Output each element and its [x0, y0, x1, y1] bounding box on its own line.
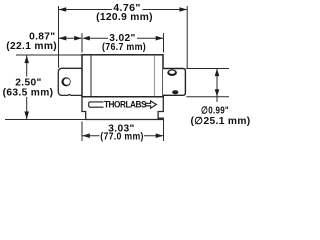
- dim 3.02 line right segment: [137, 37, 164, 39]
- dim 3.02 line left segment: [89, 37, 108, 39]
- Thorlabs logo bracket: [89, 102, 104, 107]
- svg-text:(63.5 mm): (63.5 mm): [3, 88, 54, 99]
- extension line: base left bottom (x=82): [81, 122, 83, 142]
- svg-text:(22.1 mm): (22.1 mm): [6, 41, 57, 52]
- extension line: height top (y=55): [16, 54, 82, 56]
- dim 3.03 line left segment: [82, 135, 99, 137]
- extension line: diameter top (y=68.5): [186, 68, 229, 70]
- body bezel line right: [154, 56, 156, 97]
- dim 3.03 line right segment: [144, 135, 164, 137]
- dim 3.02 arrow right: [156, 36, 164, 41]
- body bezel line left: [90, 56, 92, 97]
- svg-text:(∅25.1 mm): (∅25.1 mm): [191, 116, 250, 127]
- extension line: base right bottom (x=163.5): [163, 120, 165, 141]
- dim dia arrow bottom: [215, 89, 220, 97]
- cylinder (output barrel): [163, 69, 185, 96]
- dim dia arrow top: [215, 69, 220, 77]
- Thorlabs logo arrow: [146, 101, 157, 108]
- extension line: body left top (x=82): [81, 33, 83, 53]
- dim 2.50 vertical line bottom: [26, 97, 28, 119]
- svg-text:THORLABS: THORLABS: [104, 100, 147, 111]
- left block (rear connector housing): [58, 68, 83, 95]
- extension line: body right top (x=163.5): [163, 33, 165, 53]
- hole in left block: [62, 77, 71, 86]
- base plate outline: [82, 97, 163, 120]
- svg-text:(77.0 mm): (77.0 mm): [100, 132, 144, 143]
- dim 0.87 line: [59, 37, 83, 39]
- extension line: diameter bottom (y=96.8): [186, 96, 229, 98]
- dim 3.03 arrow left: [82, 133, 90, 138]
- extension line: overall left (x=58.5): [58, 6, 60, 68]
- svg-text:(120.9 mm): (120.9 mm): [96, 12, 153, 23]
- dim 4.76 line left segment: [59, 9, 112, 11]
- bottom setscrew oval: [172, 90, 178, 94]
- dim 4.76 arrow right: [180, 7, 188, 12]
- dim 3.03 arrow right: [156, 133, 164, 138]
- dim 3.02 arrow left: [82, 36, 90, 41]
- svg-text:(76.7 mm): (76.7 mm): [102, 42, 146, 53]
- top ring screw on cylinder: [167, 69, 177, 76]
- dim 2.50 vertical line top: [26, 56, 28, 77]
- extension line: height bottom (y=119.5): [5, 119, 86, 121]
- dim 2.50 arrow top: [24, 56, 29, 64]
- main body: [82, 55, 163, 97]
- dim 0.87 arrow right: [74, 36, 82, 41]
- body bottom / base top edge: [81, 96, 163, 98]
- dim 2.50 arrow bottom: [24, 112, 29, 120]
- dim 4.76 line right segment: [143, 9, 187, 11]
- extension line: overall right (x=186.5): [186, 6, 188, 69]
- dim dia vertical line: [216, 69, 218, 102]
- dim 0.87 arrow left: [59, 36, 67, 41]
- dim 4.76 arrow left: [59, 7, 66, 12]
